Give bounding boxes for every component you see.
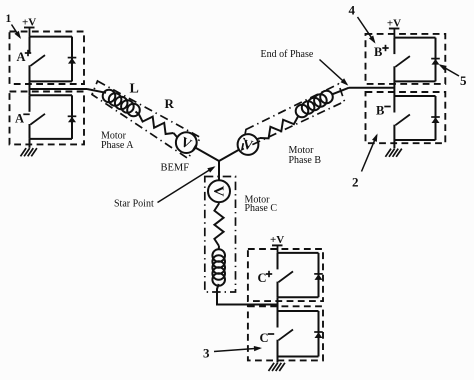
svg-text:B: B xyxy=(374,45,382,59)
svg-text:+V: +V xyxy=(270,234,284,246)
svg-text:Phase A: Phase A xyxy=(101,140,134,151)
svg-text:B: B xyxy=(376,104,384,118)
svg-text:Phase C: Phase C xyxy=(245,203,278,214)
svg-text:Phase B: Phase B xyxy=(289,155,322,166)
svg-text:2: 2 xyxy=(352,174,359,189)
svg-text:Star Point: Star Point xyxy=(114,199,154,210)
svg-text:5: 5 xyxy=(460,73,467,88)
svg-text:+V: +V xyxy=(22,16,36,28)
svg-text:3: 3 xyxy=(203,346,210,361)
svg-text:+V: +V xyxy=(387,17,401,29)
svg-text:C: C xyxy=(258,271,267,285)
svg-text:R: R xyxy=(165,96,175,111)
svg-text:A: A xyxy=(15,111,24,125)
svg-text:V: V xyxy=(210,186,226,197)
svg-text:1: 1 xyxy=(6,13,12,25)
svg-text:C: C xyxy=(260,331,269,345)
svg-text:A: A xyxy=(17,50,26,64)
svg-text:End of Phase: End of Phase xyxy=(261,49,314,60)
svg-text:BEMF: BEMF xyxy=(161,163,190,174)
svg-text:4: 4 xyxy=(349,2,356,17)
svg-text:L: L xyxy=(130,82,139,97)
